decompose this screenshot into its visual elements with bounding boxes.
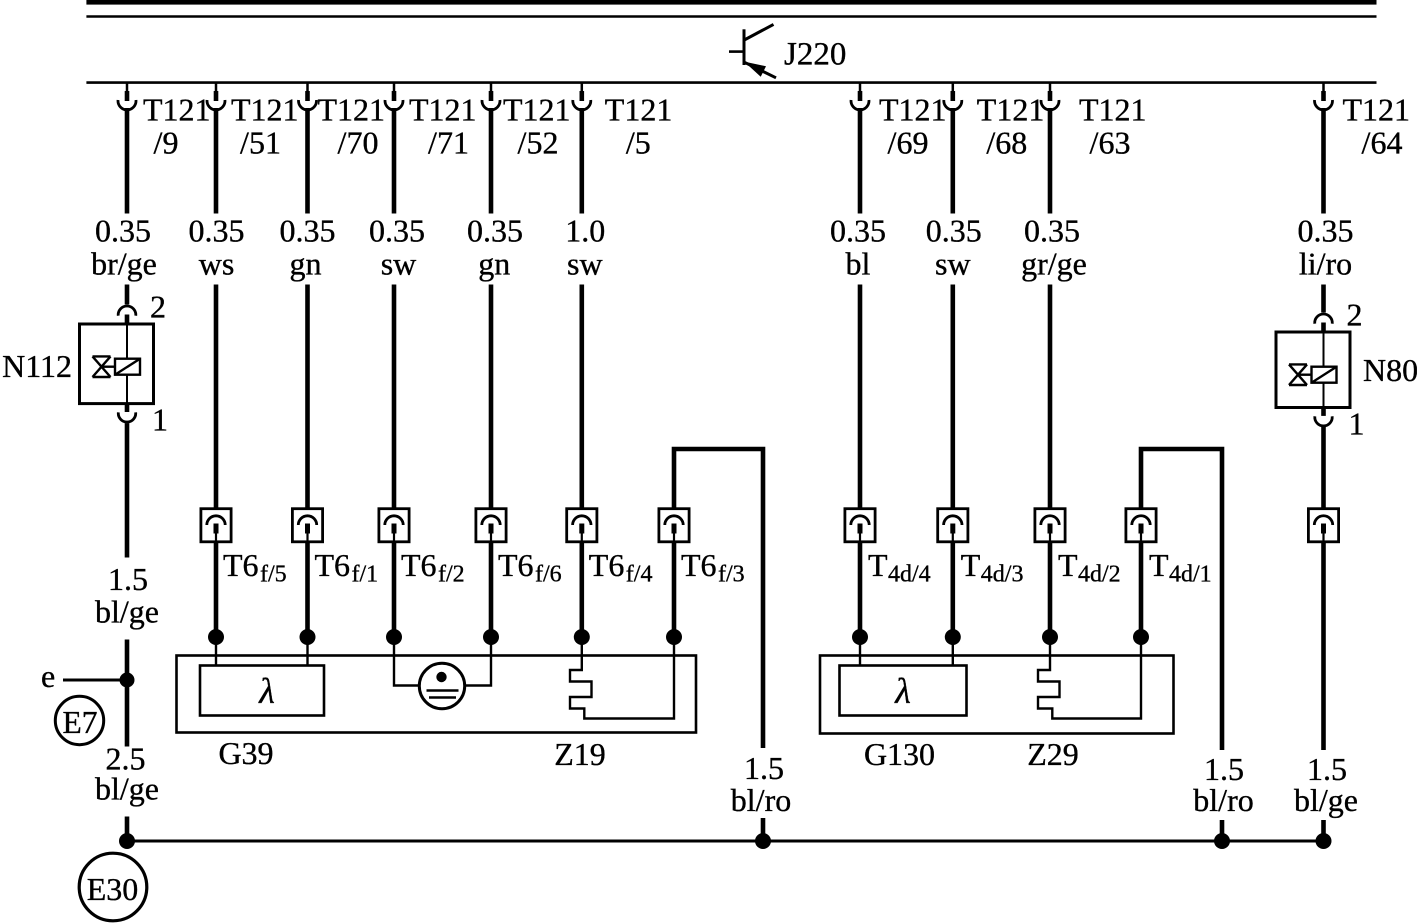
svg-text:gr/ge: gr/ge	[1021, 246, 1087, 282]
svg-text:0.35: 0.35	[830, 213, 886, 249]
svg-text:λ: λ	[258, 671, 275, 711]
svg-text:Z19: Z19	[554, 736, 606, 772]
svg-text:4d/4: 4d/4	[888, 562, 931, 588]
svg-text:gn: gn	[290, 246, 322, 282]
svg-text:T121: T121	[605, 92, 673, 128]
svg-text:T121: T121	[1079, 92, 1147, 128]
svg-text:2: 2	[1347, 297, 1363, 333]
svg-text:0.35: 0.35	[926, 213, 982, 249]
svg-text:sw: sw	[567, 246, 603, 282]
svg-text:T: T	[868, 547, 888, 583]
svg-text:T121: T121	[318, 92, 386, 128]
svg-text:Z29: Z29	[1027, 736, 1079, 772]
svg-text:T121: T121	[1343, 92, 1411, 128]
svg-text:0.35: 0.35	[95, 213, 151, 249]
svg-text:1: 1	[152, 402, 168, 438]
svg-text:e: e	[41, 658, 55, 694]
svg-text:1.0: 1.0	[565, 213, 605, 249]
svg-text:0.35: 0.35	[280, 213, 336, 249]
svg-text:T121: T121	[143, 92, 211, 128]
svg-text:/52: /52	[518, 125, 559, 161]
svg-text:T121: T121	[409, 92, 477, 128]
svg-text:0.35: 0.35	[1298, 213, 1354, 249]
svg-text:T121: T121	[231, 92, 299, 128]
svg-text:T6: T6	[401, 547, 437, 583]
svg-text:4d/3: 4d/3	[981, 562, 1024, 588]
svg-text:T121: T121	[503, 92, 571, 128]
svg-text:1: 1	[1349, 406, 1365, 442]
svg-text:sw: sw	[935, 246, 971, 282]
svg-text:li/ro: li/ro	[1299, 246, 1352, 282]
svg-text:f/3: f/3	[718, 562, 745, 588]
svg-text:ws: ws	[199, 246, 235, 282]
svg-text:0.35: 0.35	[1024, 213, 1080, 249]
svg-text:/69: /69	[888, 125, 929, 161]
svg-text:N112: N112	[2, 348, 72, 384]
svg-text:f/6: f/6	[535, 562, 562, 588]
svg-text:br/ge: br/ge	[91, 246, 157, 282]
svg-text:f/5: f/5	[260, 562, 287, 588]
svg-text:bl/ge: bl/ge	[95, 771, 159, 807]
svg-text:E7: E7	[63, 705, 98, 740]
svg-text:T121: T121	[977, 92, 1045, 128]
svg-text:T6: T6	[315, 547, 351, 583]
svg-text:1.5: 1.5	[108, 561, 148, 597]
svg-text:bl/ro: bl/ro	[1193, 782, 1253, 818]
svg-text:2: 2	[150, 289, 166, 325]
svg-text:0.35: 0.35	[369, 213, 425, 249]
svg-text:T6: T6	[589, 547, 625, 583]
svg-text:G39: G39	[218, 735, 273, 771]
svg-text:λ: λ	[894, 671, 911, 711]
svg-text:T: T	[961, 547, 981, 583]
svg-text:/68: /68	[986, 125, 1027, 161]
svg-text:f/2: f/2	[438, 562, 465, 588]
svg-text:/9: /9	[154, 125, 179, 161]
svg-text:E30: E30	[87, 871, 139, 907]
svg-text:/51: /51	[240, 125, 281, 161]
svg-text:G130: G130	[864, 736, 935, 772]
svg-text:T6: T6	[681, 547, 717, 583]
svg-text:T: T	[1058, 547, 1078, 583]
svg-text:/71: /71	[428, 125, 469, 161]
svg-text:/64: /64	[1362, 125, 1403, 161]
svg-text:0.35: 0.35	[467, 213, 523, 249]
svg-text:4d/2: 4d/2	[1078, 562, 1121, 588]
svg-text:1.5: 1.5	[744, 750, 784, 786]
svg-text:0.35: 0.35	[189, 213, 245, 249]
svg-text:f/1: f/1	[352, 562, 379, 588]
svg-text:J220: J220	[784, 37, 846, 73]
svg-text:bl/ro: bl/ro	[731, 782, 791, 818]
svg-text:T: T	[1149, 547, 1169, 583]
svg-text:/5: /5	[626, 125, 651, 161]
svg-text:/63: /63	[1090, 125, 1131, 161]
svg-text:T121: T121	[879, 92, 947, 128]
svg-text:f/4: f/4	[626, 562, 653, 588]
svg-text:gn: gn	[478, 246, 510, 282]
svg-text:bl/ge: bl/ge	[1294, 782, 1358, 818]
svg-text:bl/ge: bl/ge	[95, 594, 159, 630]
svg-text:sw: sw	[381, 246, 417, 282]
svg-text:/70: /70	[338, 125, 379, 161]
svg-text:4d/1: 4d/1	[1169, 562, 1212, 588]
svg-text:T6: T6	[498, 547, 534, 583]
svg-text:T6: T6	[223, 547, 259, 583]
svg-text:bl: bl	[846, 246, 871, 282]
svg-text:N80: N80	[1363, 352, 1417, 388]
